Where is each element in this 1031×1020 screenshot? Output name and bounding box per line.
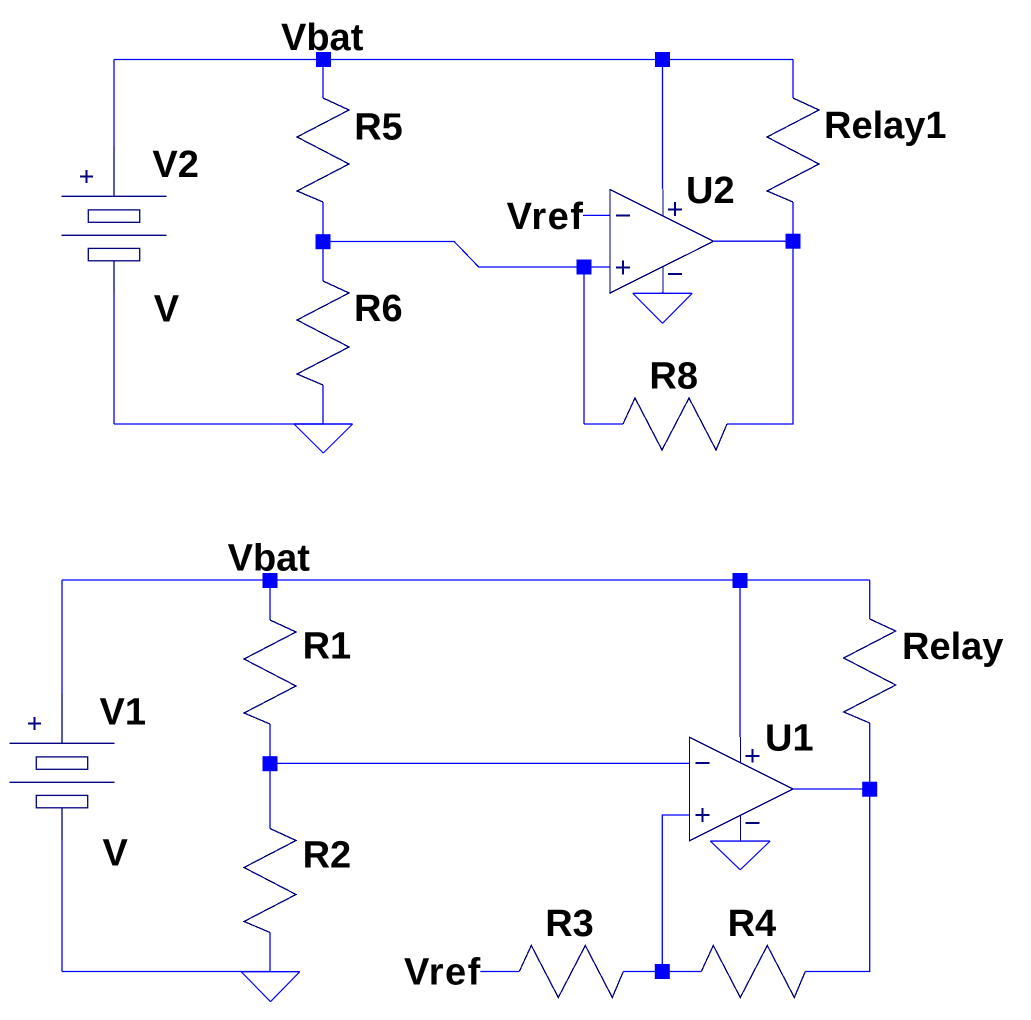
wire: from output node down to R4 right side: [805, 789, 869, 972]
wire: R3 right lead to junction node: [623, 971, 662, 973]
svg-text:R2: R2: [303, 835, 352, 877]
resistor R5: [297, 98, 349, 202]
V1 plus polarity mark: [28, 717, 41, 730]
voltage source V1 battery symbol: [10, 694, 115, 840]
op-amp U1 triangle body: [689, 737, 793, 842]
wire: U1 negative supply to ground stub: [739, 840, 741, 843]
svg-text:R1: R1: [303, 626, 352, 668]
U1 negative supply pin line (inside symbol): [740, 816, 742, 842]
op-amp U2 triangle body: [610, 189, 714, 294]
svg-text:Vref: Vref: [404, 951, 482, 993]
U1 positive supply mark (+): [745, 749, 759, 763]
wire: R3 left lead from Vref flag: [480, 971, 519, 973]
wire: bottom ground run of top circuit: [114, 423, 323, 425]
wire: U1 output to Relay bottom node: [793, 788, 870, 790]
U2 inverting input mark (-): [616, 214, 630, 216]
voltage source V2 battery symbol: [62, 147, 167, 293]
svg-text:R3: R3: [545, 903, 594, 945]
svg-text:R6: R6: [354, 288, 403, 330]
wire: Relay bottom lead to output node: [869, 723, 871, 789]
wire: R8 left lead: [584, 423, 623, 425]
ground flag below R6: [294, 424, 353, 453]
node junction U2 non-inverting input: [577, 260, 592, 275]
wire: top Vbat rail from battery V2 to Relay1: [114, 59, 793, 61]
wire: battery V1 negative lead down: [61, 840, 63, 972]
U1 inverting input mark (-): [696, 762, 710, 764]
resistor R6: [297, 281, 349, 385]
U2 non-inverting input mark (+): [616, 260, 630, 274]
resistor R8: [623, 398, 727, 450]
U1 non-inverting input mark (+): [696, 808, 710, 822]
node junction divider R1/R2: [263, 756, 278, 771]
svg-text:Relay1: Relay1: [824, 105, 947, 147]
node junction U2 output / Relay1: [786, 234, 801, 249]
wire: R8 to U2 non-inverting input node: [583, 267, 585, 424]
wire: U2 negative supply to ground stub: [662, 292, 664, 293]
wire: U2 output to Relay1 bottom node: [714, 240, 794, 242]
svg-text:V: V: [103, 833, 129, 875]
U1 negative supply mark (-): [745, 822, 759, 824]
wire: R2 bottom lead to ground: [269, 933, 271, 972]
wire: R4 left lead to junction node: [662, 971, 701, 973]
wire: feedback from output node down to R8: [727, 241, 793, 424]
svg-text:R4: R4: [728, 903, 777, 945]
resistor R3: [519, 946, 623, 998]
svg-text:Vref: Vref: [507, 196, 585, 238]
wire: U2 positive supply from Vbat rail: [662, 60, 664, 190]
node junction on Vbat rail at U2 supply tap: [655, 52, 670, 67]
svg-text:V: V: [154, 288, 180, 330]
U2 negative supply mark (-): [668, 273, 682, 275]
resistor Relay: [844, 619, 896, 723]
V2 plus polarity mark: [80, 170, 93, 183]
ground flag below U1: [710, 841, 770, 870]
wire: battery V2 negative lead down: [113, 293, 115, 424]
node junction U1 output / Relay: [862, 782, 877, 797]
node junction on Vbat rail at U1 supply tap: [733, 573, 748, 588]
svg-text:Relay: Relay: [902, 626, 1003, 668]
wire: R5 top lead from Vbat node: [322, 60, 324, 99]
wire: R1 bottom lead to divider node: [269, 724, 271, 764]
wire: R6 bottom lead to ground: [322, 385, 324, 424]
svg-text:U2: U2: [686, 170, 735, 212]
U1 positive supply pin line (inside symbol): [740, 737, 742, 763]
ground flag below R2: [241, 972, 300, 1002]
svg-text:R5: R5: [354, 106, 403, 148]
U2 positive supply pin line (inside symbol): [662, 189, 664, 216]
svg-text:R8: R8: [649, 356, 698, 398]
wire: R6 top lead from divider node: [322, 242, 324, 282]
svg-text:V1: V1: [100, 692, 146, 734]
node junction R3/R4/feedback: [655, 964, 670, 979]
resistor Relay1: [767, 98, 819, 202]
wire: Relay1 bottom lead to output node: [792, 202, 794, 241]
wire: Vref flag stub to U2 inverting input: [583, 214, 610, 216]
resistor R2: [244, 829, 296, 933]
wire: R1 top lead from Vbat node: [269, 580, 271, 620]
wire: bottom ground run of bottom circuit: [62, 971, 271, 973]
wire: battery V1 positive lead up to Vbat rail: [61, 580, 63, 695]
wire: R3/R4 junction up to U1 non-inverting input: [662, 815, 689, 972]
wire: R5 bottom lead to divider node: [322, 202, 324, 242]
wire: bottom Vbat rail from battery V1 to Relay: [62, 579, 870, 581]
wire: divider node to U2 non-inverting input (with jog): [323, 241, 610, 267]
node junction Vbat at R5 top: [316, 52, 331, 67]
wire: R2 top lead from divider node: [269, 764, 271, 829]
wire: divider node to U1 inverting input: [270, 762, 689, 764]
resistor R1: [244, 620, 296, 724]
resistor R4: [701, 946, 805, 998]
svg-text:U1: U1: [765, 718, 814, 760]
wire: Relay1 top lead from Vbat rail corner: [792, 60, 794, 99]
wire: battery V2 positive lead up to Vbat rail: [113, 60, 115, 148]
U2 negative supply pin line (inside symbol): [662, 267, 664, 294]
node junction Vbat at R1 top: [263, 573, 278, 588]
svg-text:V2: V2: [152, 144, 198, 186]
U2 positive supply mark (+): [668, 202, 682, 216]
wire: U1 positive supply from Vbat rail: [739, 580, 741, 737]
wire: Relay top lead from Vbat rail corner: [869, 580, 871, 619]
node junction divider R5/R6: [316, 234, 331, 249]
ground flag below U2: [633, 293, 692, 323]
